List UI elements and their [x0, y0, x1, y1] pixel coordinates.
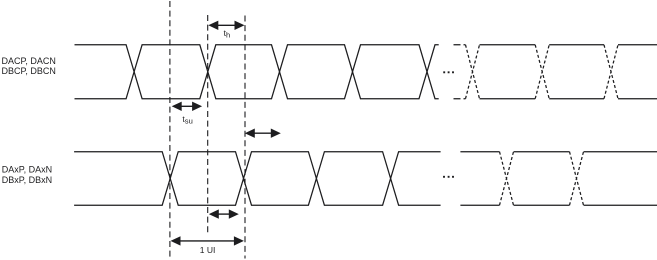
wire: data waveform right rails top [460, 151, 657, 153]
svg-text:1 UI: 1 UI [200, 245, 216, 255]
svg-text:th: th [224, 28, 231, 40]
svg-text:DBCP, DBCN: DBCP, DBCN [2, 66, 56, 76]
wire: clock waveform dashed leading stubs [454, 45, 466, 99]
svg-text:DACP, DACN: DACP, DACN [2, 56, 56, 66]
arrow th left arrowhead [208, 21, 218, 30]
arrow skew right arrowhead [229, 209, 239, 218]
wire: data waveform dashed crossings [500, 152, 584, 206]
arrow valid right arrowhead [271, 129, 281, 138]
wire: data waveform DAxN/DBxN solid section path 2 [74, 152, 441, 206]
wire: clock waveform right rails bottom [480, 98, 657, 100]
wire: data waveform right rails bottom [460, 204, 657, 206]
arrow skew shaft [217, 213, 231, 215]
svg-text:tsu: tsu [182, 114, 192, 126]
svg-text:DBxP, DBxN: DBxP, DBxN [2, 175, 52, 185]
arrow valid left arrowhead [245, 129, 255, 138]
arrow tsu shaft [180, 105, 194, 107]
wire: clock waveform DACN/DBCN solid section path 2 [75, 45, 439, 99]
arrow skew left arrowhead [209, 209, 219, 218]
ellipsis dots: clock waveform continuation [443, 71, 445, 73]
arrow 1 UI shaft [179, 240, 236, 242]
ellipsis dots: data waveform continuation [443, 176, 445, 178]
wire: data waveform DAxP/DBxP solid section path 1 [74, 152, 441, 206]
wire: clock waveform DACP/DBCP solid section path 1 [75, 45, 439, 99]
arrow valid shaft [253, 132, 273, 134]
wire: clock waveform dashed crossings [466, 45, 619, 99]
arrow 1 UI left arrowhead [171, 236, 181, 245]
dashed reference line C (next data crossing / end of 1 UI) [244, 16, 246, 259]
arrow th right arrowhead [235, 21, 245, 30]
arrow 1 UI right arrowhead [234, 236, 244, 245]
arrow tsu right arrowhead [192, 102, 202, 111]
svg-text:DAxP, DAxN: DAxP, DAxN [2, 165, 52, 175]
arrow tsu left arrowhead [172, 102, 182, 111]
dashed reference line A (data crossing / start of 1 UI) [169, 1, 171, 259]
wire: clock waveform right rails top [480, 44, 657, 46]
dashed reference line B (clock crossing) [207, 15, 209, 234]
arrow th shaft [216, 24, 236, 26]
